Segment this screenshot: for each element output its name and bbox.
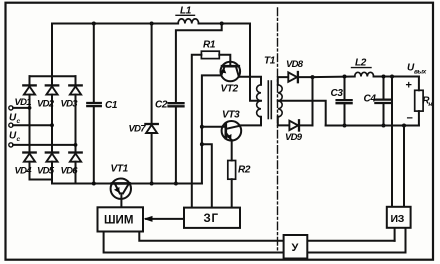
svg-text:VT2: VT2 bbox=[221, 84, 239, 95]
diode VD9 bbox=[289, 121, 298, 130]
transistor VT3 bbox=[222, 121, 242, 141]
wire top DC rail bbox=[52, 24, 178, 77]
svg-text:У: У bbox=[292, 242, 299, 254]
diode VD2 bbox=[46, 76, 58, 152]
svg-text:вых: вых bbox=[414, 69, 427, 76]
wire R1 left to ZG bbox=[192, 55, 202, 208]
wire VD9 out bbox=[299, 124, 313, 126]
wire C2 to bottom bbox=[175, 107, 177, 184]
wire R1 right to VT2 base bbox=[219, 55, 230, 62]
svg-text:R1: R1 bbox=[203, 40, 216, 51]
wire VT2 emitter to VT3 base bbox=[202, 75, 221, 183]
label Uc phase bbox=[9, 113, 21, 126]
wire R2 to ZG bbox=[231, 179, 233, 207]
svg-text:VT1: VT1 bbox=[111, 164, 129, 175]
wire primary centre-tap feed bbox=[250, 24, 261, 101]
wire cathode join vertical bbox=[312, 77, 314, 125]
node VT3 base bbox=[200, 125, 204, 129]
label plus bbox=[406, 80, 412, 92]
capacitor C1 bbox=[93, 24, 95, 102]
wire IZ bottom right bbox=[405, 228, 407, 253]
node ZG branch bbox=[200, 142, 204, 146]
svg-text:L2: L2 bbox=[355, 58, 367, 69]
svg-text:C4: C4 bbox=[364, 94, 377, 105]
wire branch to ZG bbox=[202, 144, 212, 207]
svg-text:c: c bbox=[17, 118, 21, 125]
wire VT1 right to darlington bbox=[130, 183, 202, 185]
wire IZ bottom left bbox=[394, 228, 396, 241]
svg-text:VD8: VD8 bbox=[286, 59, 304, 70]
node VD8 cathode bbox=[311, 75, 315, 79]
bridge bottom bus bbox=[30, 179, 53, 181]
transistor VT1 bbox=[111, 179, 131, 208]
wire VT3 emitter to R2 bbox=[231, 140, 233, 160]
wire ZG to ShIM arrow bbox=[146, 218, 184, 220]
resistor R1 bbox=[201, 51, 219, 58]
wire bottom bus to VT1 bbox=[52, 183, 111, 185]
svg-text:C1: C1 bbox=[105, 100, 118, 111]
node C1 top bbox=[92, 22, 96, 26]
svg-text:ИЗ: ИЗ bbox=[391, 213, 405, 225]
capacitor C3 bbox=[344, 77, 346, 99]
svg-text:C2: C2 bbox=[155, 100, 168, 111]
diode VD6 bbox=[69, 153, 81, 184]
node C4 top bbox=[382, 75, 386, 79]
wire top rail after L1 bbox=[199, 23, 250, 25]
svg-text:н: н bbox=[428, 101, 432, 108]
terminal phase 3 bbox=[9, 143, 13, 147]
svg-text:ЗГ: ЗГ bbox=[204, 213, 219, 225]
wire + rail after L2 bbox=[374, 76, 419, 78]
node phase 3 bbox=[74, 143, 78, 147]
diode VD5 bbox=[46, 153, 58, 184]
node C3 top bbox=[343, 75, 347, 79]
resistor Rn load bbox=[418, 77, 420, 91]
wire VT3 collector to T1 primary bottom bbox=[240, 117, 261, 126]
wire + rail secondary bbox=[313, 76, 355, 79]
diode VD4 bbox=[23, 153, 35, 180]
node C4 bottom bbox=[382, 124, 386, 128]
svg-text:+: + bbox=[406, 80, 412, 92]
node C2 bottom bbox=[174, 182, 178, 186]
wire secondary centre tap bbox=[278, 101, 326, 126]
node phase 1 bbox=[28, 106, 32, 110]
wire phase 1 bbox=[13, 107, 30, 109]
wire VT2 collector to T1 primary top bbox=[239, 77, 261, 85]
diode VD3 bbox=[69, 76, 81, 152]
diode VD8 bbox=[288, 72, 297, 81]
capacitor C2 bbox=[169, 103, 184, 106]
svg-text:VD2: VD2 bbox=[37, 99, 55, 110]
diode VD1 bbox=[23, 76, 35, 152]
block IZ bbox=[387, 207, 411, 228]
svg-text:−: − bbox=[407, 113, 413, 125]
svg-text:VD7: VD7 bbox=[129, 124, 147, 135]
node VD7 bottom bbox=[150, 182, 154, 186]
node C1 bottom bbox=[92, 182, 96, 186]
svg-text:c: c bbox=[17, 136, 21, 143]
svg-text:ШИМ: ШИМ bbox=[104, 215, 133, 227]
transistor VT2 bbox=[220, 62, 240, 82]
capacitor C4 bbox=[383, 77, 385, 99]
wire ShIM bottom left bbox=[104, 232, 406, 253]
node C2 feed bbox=[220, 22, 224, 26]
block U amplifier bbox=[284, 235, 308, 259]
inductor L1 bbox=[178, 19, 199, 24]
label minus bbox=[407, 113, 413, 125]
transformer T1 core bbox=[267, 81, 269, 119]
svg-text:R2: R2 bbox=[238, 165, 251, 176]
wire sense + to IZ bbox=[391, 77, 393, 207]
terminal phase 1 bbox=[9, 106, 13, 110]
label Uvyh bbox=[407, 63, 427, 76]
block ShIM bbox=[98, 207, 144, 231]
node C3 bottom bbox=[343, 124, 347, 128]
wire sense - to IZ bbox=[403, 126, 405, 207]
svg-text:VT3: VT3 bbox=[222, 110, 240, 121]
node sense - bbox=[402, 124, 406, 128]
wire phase 3 bbox=[13, 144, 76, 146]
node VD7 top bbox=[150, 22, 154, 26]
wire VT3 base bbox=[202, 126, 226, 128]
terminal phase 2 bbox=[9, 123, 13, 127]
transformer T1 secondary bbox=[278, 85, 282, 117]
separator dash-dot line bbox=[277, 8, 279, 251]
wire VD8 out bbox=[298, 76, 313, 78]
wire secondary top to VD8 bbox=[278, 77, 288, 85]
wire C2 feed from rail bbox=[176, 24, 222, 103]
diode VD7 bbox=[151, 24, 153, 125]
bridge top bus bbox=[30, 75, 76, 77]
svg-text:VD6: VD6 bbox=[61, 166, 79, 177]
svg-text:VD3: VD3 bbox=[61, 99, 79, 110]
label Uc phase 2 bbox=[9, 131, 21, 144]
svg-text:VD5: VD5 bbox=[37, 166, 55, 177]
svg-text:C3: C3 bbox=[331, 88, 344, 99]
node sense + bbox=[390, 75, 394, 79]
wire phase 2 bbox=[13, 124, 52, 126]
svg-text:T1: T1 bbox=[264, 56, 276, 67]
svg-text:VD9: VD9 bbox=[285, 132, 303, 143]
resistor R2 bbox=[228, 161, 236, 180]
block ZG bbox=[184, 208, 240, 228]
node phase 2 bbox=[50, 123, 54, 127]
transformer T1 primary bbox=[257, 85, 261, 117]
wire - rail secondary bbox=[326, 125, 419, 127]
svg-text:VD4: VD4 bbox=[15, 166, 33, 177]
wire ShIM bottom right bbox=[139, 232, 394, 241]
wire secondary bottom to VD9 bbox=[278, 117, 289, 126]
inductor L2 bbox=[355, 72, 374, 76]
